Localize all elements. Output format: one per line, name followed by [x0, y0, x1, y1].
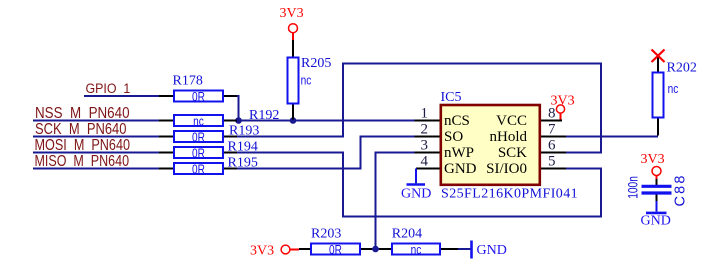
svg-text:R194: R194: [228, 140, 258, 155]
svg-text:SI/IO0: SI/IO0: [486, 161, 527, 177]
svg-text:SCK: SCK: [498, 145, 527, 161]
svg-text:GND: GND: [401, 186, 431, 201]
svg-text:0R: 0R: [192, 130, 205, 144]
svg-text:3V3: 3V3: [280, 6, 304, 21]
svg-text:nCS: nCS: [444, 113, 470, 129]
svg-text:SCK M PN640: SCK M PN640: [35, 121, 127, 138]
svg-text:1: 1: [421, 106, 429, 122]
svg-text:R202: R202: [667, 61, 697, 76]
svg-text:R193: R193: [229, 124, 259, 139]
svg-text:SO: SO: [444, 129, 463, 145]
svg-text:nc: nc: [193, 114, 204, 128]
svg-text:IC5: IC5: [441, 90, 462, 105]
svg-text:R195: R195: [228, 156, 258, 171]
svg-text:3: 3: [421, 138, 429, 154]
svg-text:VCC: VCC: [496, 113, 527, 129]
svg-text:3V3: 3V3: [250, 244, 274, 259]
svg-text:6: 6: [548, 138, 556, 154]
svg-text:GND: GND: [444, 161, 477, 177]
svg-text:0R: 0R: [192, 146, 205, 160]
svg-text:S25FL216K0PMFI041: S25FL216K0PMFI041: [441, 187, 578, 202]
svg-text:R178: R178: [173, 74, 203, 89]
svg-text:0R: 0R: [192, 90, 205, 104]
svg-text:nc: nc: [668, 82, 679, 96]
svg-text:nc: nc: [411, 243, 422, 257]
svg-text:0R: 0R: [192, 162, 205, 176]
svg-text:nc: nc: [301, 73, 312, 87]
svg-text:nWP: nWP: [444, 145, 474, 161]
svg-text:R205: R205: [301, 56, 331, 71]
svg-text:0R: 0R: [329, 243, 342, 257]
svg-text:R192: R192: [249, 108, 279, 123]
svg-text:GND: GND: [477, 243, 507, 258]
svg-text:R203: R203: [311, 227, 341, 242]
svg-text:MISO M PN640: MISO M PN640: [35, 151, 130, 169]
svg-text:NSS M PN640: NSS M PN640: [35, 105, 130, 122]
svg-text:R204: R204: [392, 227, 422, 242]
svg-text:7: 7: [548, 122, 556, 138]
svg-text:5: 5: [548, 154, 556, 170]
svg-text:4: 4: [421, 154, 429, 170]
svg-text:3V3: 3V3: [641, 152, 665, 167]
svg-text:8: 8: [548, 106, 556, 122]
svg-text:2: 2: [421, 122, 429, 138]
svg-text:nHold: nHold: [490, 129, 528, 145]
svg-text:GPIO 1: GPIO 1: [86, 80, 131, 96]
svg-text:GND: GND: [641, 214, 671, 229]
svg-text:100n: 100n: [625, 176, 641, 199]
svg-text:C88: C88: [673, 173, 689, 206]
